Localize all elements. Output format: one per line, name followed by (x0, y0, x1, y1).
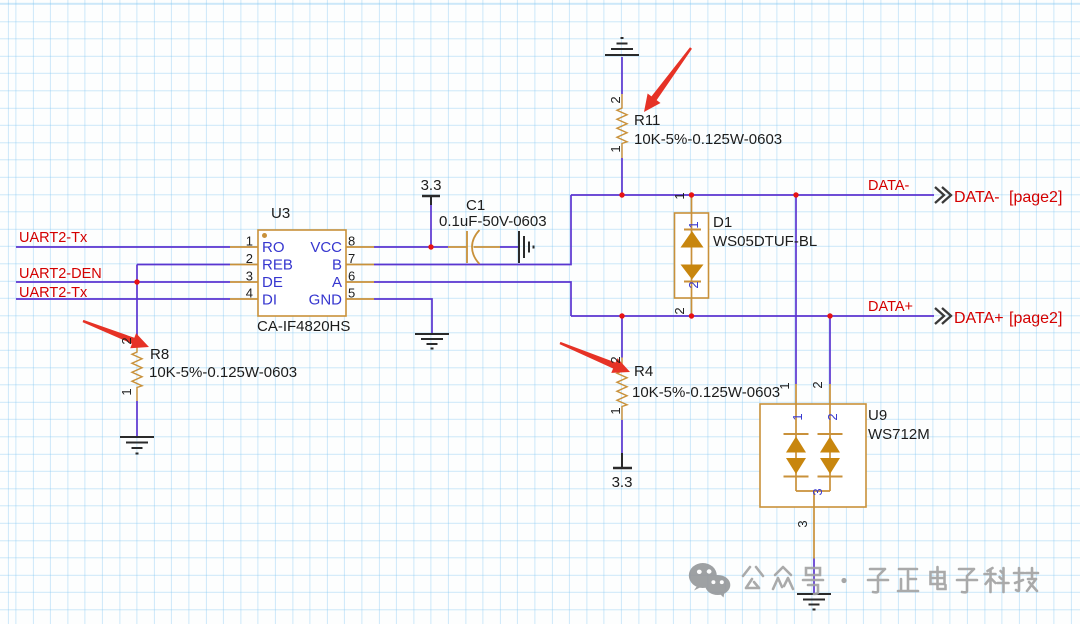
pin number 1 U9 outer (777, 382, 792, 389)
svg-text:5: 5 (348, 286, 355, 301)
wire GND pin5 (374, 299, 432, 334)
wire DATA- down to U9 pin1 (795, 195, 797, 384)
svg-text:DATA-: DATA- (868, 178, 910, 194)
designator R8 (150, 346, 169, 363)
svg-text:WS05DTUF-BL: WS05DTUF-BL (713, 233, 817, 250)
wire DATA+ bus (571, 315, 934, 317)
svg-text:1: 1 (790, 413, 805, 420)
wire B pin7 to DATA- (374, 195, 571, 265)
pin number 3 U3 (246, 269, 253, 284)
U3 pin stubs left (230, 247, 258, 299)
pin name VCC (310, 239, 342, 256)
glyph zheng (898, 569, 918, 591)
annotation arrow at R11 (638, 43, 698, 116)
designator C1 (466, 197, 485, 214)
pin number 2 U9 inner (825, 413, 840, 420)
off-page label DATA+ page2 (954, 310, 1062, 327)
wire ground to R11 top (621, 57, 623, 94)
value label CA-IF4820HS (257, 318, 350, 335)
pin number 2 U3 (246, 251, 253, 266)
pin number 6 U3 (348, 269, 355, 284)
value label R4 10K (632, 384, 780, 401)
glyph ke (985, 568, 1009, 592)
power 3.3 bottom bar (613, 467, 632, 469)
pin number 3 U9 inner (810, 488, 825, 495)
resistor R11 (617, 94, 627, 158)
pin number 5 U3 (348, 286, 355, 301)
junction node DE/REB (134, 279, 139, 284)
ground under R8 (120, 437, 154, 454)
pin number 1 U9 inner (790, 413, 805, 420)
wire A pin6 to DATA+ (374, 282, 571, 316)
svg-text:DATA-: DATA- (954, 189, 1000, 206)
junction node DATA+ D1 (689, 313, 694, 318)
off-page chevron DATA- (935, 187, 951, 203)
wire VCC pin8 to C1 (374, 246, 448, 248)
glyph dot (841, 578, 846, 583)
svg-text:6: 6 (348, 269, 355, 284)
svg-text:R4: R4 (634, 363, 653, 380)
transistor U9 body (760, 404, 866, 507)
glyph zi (868, 569, 888, 592)
svg-text:U9: U9 (868, 407, 887, 424)
ground under U9 pin3 (797, 594, 831, 610)
svg-text:DATA+: DATA+ (868, 299, 913, 315)
svg-text:3: 3 (795, 520, 810, 527)
glyph ji (1014, 568, 1038, 591)
power 3.3 top bar (422, 195, 440, 197)
svg-text:2: 2 (119, 337, 134, 344)
svg-text:1: 1 (686, 221, 701, 228)
TVS U9 symbols (796, 384, 830, 559)
svg-text:10K-5%-0.125W-0603: 10K-5%-0.125W-0603 (149, 364, 297, 381)
junction node DATA+ R4 (619, 313, 624, 318)
svg-text:R8: R8 (150, 346, 169, 363)
junction node DATA- U9p1 (793, 192, 798, 197)
glyph hao (803, 568, 823, 594)
pin number 2 U9 outer (810, 381, 825, 388)
pin number 1 D1 outer (672, 192, 687, 199)
svg-text:4: 4 (246, 286, 253, 301)
svg-text:2: 2 (686, 281, 701, 288)
svg-text:DE: DE (262, 274, 283, 291)
svg-text:2: 2 (608, 96, 623, 103)
value label U9 WS712M (868, 426, 930, 443)
designator D1 (713, 214, 732, 231)
wire DATA+ down to R4 (621, 316, 623, 358)
designator R11 (634, 112, 660, 129)
wire UART2-DEN pin3 (16, 281, 230, 283)
svg-text:1: 1 (608, 407, 623, 414)
pin name RO (262, 239, 285, 256)
designator R4 (634, 363, 653, 380)
svg-text:2: 2 (825, 413, 840, 420)
svg-text:WS712M: WS712M (868, 426, 930, 443)
ground above R11 flipped (605, 38, 639, 55)
wire U9 pin3 to ground (813, 559, 815, 595)
net label DATA- (868, 178, 910, 194)
net label UART2-Tx pin1 (19, 230, 88, 246)
svg-text:3.3: 3.3 (421, 177, 442, 194)
net label DATA+ (868, 299, 913, 315)
pin-1 marker dot U3 (262, 233, 267, 238)
off-page label DATA- page2 (954, 189, 1062, 206)
pin number 2 R8 (119, 337, 134, 344)
svg-text:10K-5%-0.125W-0603: 10K-5%-0.125W-0603 (632, 384, 780, 401)
pin name A (332, 274, 342, 291)
resistor R8 (132, 338, 142, 401)
wire UART2-Tx pin1 (16, 246, 230, 248)
net label UART2-Tx pin4 (19, 285, 88, 301)
glyph zhong (773, 567, 793, 589)
pin name B (332, 257, 342, 274)
designator U9 (868, 407, 887, 424)
designator U3 (271, 205, 290, 222)
svg-text:[page2]: [page2] (1009, 310, 1062, 327)
pin number 1 R4 (608, 407, 623, 414)
svg-text:2: 2 (608, 356, 623, 363)
pin number 1 R11 (608, 145, 623, 152)
power label 3.3 top (421, 177, 442, 194)
wire R4 bottom to 3.3 (621, 420, 623, 453)
value label R8 10K (149, 364, 297, 381)
ground under U3 pin5 (415, 334, 449, 349)
resistor R4 (617, 358, 627, 421)
svg-text:DATA+: DATA+ (954, 310, 1004, 327)
annotation arrow at R4 (557, 336, 633, 380)
svg-text:1: 1 (246, 234, 253, 249)
pin name DE (262, 274, 283, 291)
annotation arrow at R8 (80, 314, 152, 355)
pin number 1 D1 inner (686, 221, 701, 228)
svg-text:UART2-Tx: UART2-Tx (19, 285, 88, 301)
svg-text:2: 2 (810, 381, 825, 388)
wire C1 right lead to ground (500, 246, 519, 248)
svg-text:VCC: VCC (310, 239, 342, 256)
svg-text:2: 2 (246, 251, 253, 266)
pin number 3 U9 outer (795, 520, 810, 527)
svg-text:U3: U3 (271, 205, 290, 222)
svg-text:DI: DI (262, 292, 277, 309)
wire REB-DE tie down to R8 (136, 265, 138, 339)
svg-text:1: 1 (777, 382, 792, 389)
pin number 7 U3 (348, 251, 355, 266)
glyph gong (743, 567, 763, 588)
svg-text:1: 1 (119, 388, 134, 395)
diode D1 symbol (691, 195, 693, 316)
svg-text:3.3: 3.3 (612, 474, 633, 491)
svg-text:3: 3 (246, 269, 253, 284)
pin number 2 D1 outer (672, 307, 687, 314)
watermark (689, 563, 1038, 598)
off-page chevron DATA+ (935, 308, 951, 324)
pin name REB (262, 257, 293, 274)
pin name DI (262, 292, 277, 309)
wire 3.3 stem (430, 198, 432, 247)
capacitor C1 (448, 230, 500, 264)
svg-text:3: 3 (810, 488, 825, 495)
U3 pin stubs right (346, 247, 374, 299)
svg-text:1: 1 (672, 192, 687, 199)
pin number 1 U3 (246, 234, 253, 249)
diode D1 body (675, 213, 709, 298)
glyph zi2 (957, 569, 977, 592)
junction node DATA- R11 (619, 192, 624, 197)
junction node DATA+ U9p2 (827, 313, 832, 318)
ground right of C1 rotated (519, 231, 534, 263)
svg-text:8: 8 (348, 234, 355, 249)
pin number 1 R8 (119, 388, 134, 395)
svg-text:B: B (332, 257, 342, 274)
value label C1 (439, 213, 547, 230)
wire DATA- bus (571, 194, 934, 196)
svg-text:D1: D1 (713, 214, 732, 231)
wire UART2-Tx pin4 (16, 298, 230, 300)
value label D1 WS05DTUF-BL (713, 233, 817, 250)
op-amp U3 body CA-IF4820HS (258, 230, 346, 316)
svg-text:UART2-DEN: UART2-DEN (19, 266, 102, 282)
power label 3.3 bottom (612, 474, 633, 491)
svg-text:UART2-Tx: UART2-Tx (19, 230, 88, 246)
net label UART2-DEN (19, 266, 102, 282)
glyph dian (931, 567, 946, 589)
wire R11 bottom to DATA- (621, 158, 623, 195)
pin number 2 R4 (608, 356, 623, 363)
pin number 4 U3 (246, 286, 253, 301)
wire R8 bottom to ground (136, 401, 138, 437)
svg-text:1: 1 (608, 145, 623, 152)
value label R11 10K (634, 131, 782, 148)
svg-text:2: 2 (672, 307, 687, 314)
svg-text:CA-IF4820HS: CA-IF4820HS (257, 318, 350, 335)
svg-text:C1: C1 (466, 197, 485, 214)
svg-text:[page2]: [page2] (1009, 189, 1062, 206)
svg-text:A: A (332, 274, 342, 291)
wechat icon (689, 563, 731, 598)
svg-text:GND: GND (309, 292, 343, 309)
junction node VCC/3.3 (428, 244, 433, 249)
svg-text:10K-5%-0.125W-0603: 10K-5%-0.125W-0603 (634, 131, 782, 148)
wire DATA+ down to U9 pin2 (829, 316, 831, 384)
pin name GND (309, 292, 343, 309)
svg-text:0.1uF-50V-0603: 0.1uF-50V-0603 (439, 213, 547, 230)
wire REB pin2 (137, 264, 230, 266)
svg-text:RO: RO (262, 239, 285, 256)
svg-text:7: 7 (348, 251, 355, 266)
svg-text:REB: REB (262, 257, 293, 274)
pin number 2 R11 (608, 96, 623, 103)
pin number 8 U3 (348, 234, 355, 249)
pin number 2 D1 inner (686, 281, 701, 288)
junction node DATA- D1 (689, 192, 694, 197)
svg-text:R11: R11 (634, 112, 660, 129)
